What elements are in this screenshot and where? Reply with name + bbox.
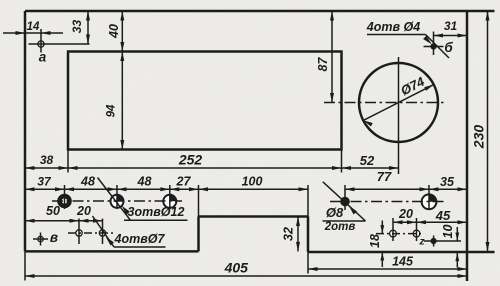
svg-text:52: 52	[360, 153, 375, 168]
svg-text:в: в	[50, 230, 58, 245]
svg-text:87: 87	[316, 57, 330, 72]
svg-text:37: 37	[37, 174, 52, 188]
svg-text:230: 230	[471, 125, 487, 150]
svg-text:252: 252	[178, 152, 203, 168]
svg-text:4отвØ7: 4отвØ7	[114, 232, 166, 246]
svg-text:31: 31	[444, 19, 458, 33]
svg-text:94: 94	[106, 104, 118, 117]
svg-text:48: 48	[80, 174, 95, 188]
svg-text:4отв Ø4: 4отв Ø4	[366, 20, 420, 34]
svg-text:45: 45	[435, 208, 451, 223]
svg-text:77: 77	[377, 169, 392, 184]
svg-text:50: 50	[46, 204, 60, 218]
svg-text:20: 20	[76, 204, 91, 218]
svg-text:38: 38	[40, 153, 54, 167]
svg-text:27: 27	[176, 174, 192, 188]
svg-text:14: 14	[27, 21, 40, 33]
svg-text:100: 100	[242, 174, 263, 188]
svg-text:10: 10	[441, 225, 455, 239]
svg-text:35: 35	[440, 175, 455, 189]
svg-text:145: 145	[392, 255, 414, 269]
svg-text:а: а	[39, 50, 47, 65]
svg-text:z: z	[418, 235, 425, 247]
svg-text:33: 33	[70, 20, 84, 34]
svg-text:2отв: 2отв	[324, 221, 356, 233]
svg-text:Ø8: Ø8	[326, 205, 344, 220]
svg-text:40: 40	[107, 24, 121, 39]
svg-text:48: 48	[137, 174, 152, 188]
svg-text:18: 18	[368, 234, 382, 248]
svg-text:3отвØ12: 3отвØ12	[128, 205, 185, 219]
svg-text:405: 405	[224, 259, 249, 275]
svg-text:20: 20	[398, 207, 413, 221]
svg-text:б: б	[444, 40, 453, 55]
svg-text:32: 32	[281, 227, 295, 241]
